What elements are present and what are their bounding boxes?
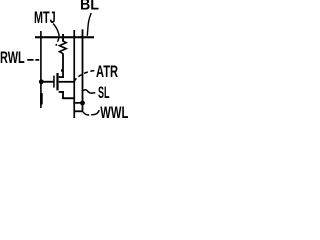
svg-text:BL: BL [80,0,99,14]
svg-text:MTJ: MTJ [34,9,56,27]
svg-text:RWL: RWL [0,49,25,67]
svg-text:ATR: ATR [96,63,118,81]
svg-text:SL: SL [98,84,110,102]
svg-text:WWL: WWL [100,104,128,120]
